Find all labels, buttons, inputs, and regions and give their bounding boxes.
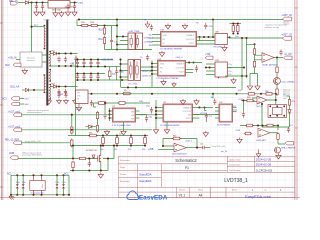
ground (216, 73, 221, 79)
gate driver U10a (128, 60, 134, 81)
capacitor C11 (89, 74, 92, 80)
resistor R06 (246, 99, 255, 102)
capacitor CX3 (bowtie) (56, 184, 59, 188)
capacitor C8a (145, 115, 148, 123)
junctions (232, 22, 239, 34)
resistor R28 (245, 124, 254, 127)
wire (55, 8, 57, 11)
svg-text:IN1: IN1 (149, 35, 152, 37)
note text secondary (27, 109, 49, 114)
resistor R44 divider (144, 136, 147, 146)
ground under U2 (121, 130, 126, 136)
junctions rail C (76, 72, 99, 74)
wire main +UST trunk (78, 19, 284, 21)
wires to grounds (250, 68, 258, 84)
U6 right pins (186, 63, 191, 73)
svg-text:+UST_PWR: +UST_PWR (128, 31, 140, 33)
resistor R7c (288, 98, 290, 106)
junctions bottom rail (10, 194, 70, 196)
svg-text:+T06: +T06 (205, 54, 211, 56)
gate driver U9b (136, 33, 143, 50)
note text right (283, 89, 290, 96)
resistor R42 divider (116, 136, 119, 146)
junctions rail A (76, 58, 99, 60)
junction (243, 66, 245, 68)
svg-text:+U06_G: +U06_G (175, 57, 183, 59)
capacitor CX4 (bowtie) (62, 184, 65, 188)
capacitor C6 (205, 113, 208, 120)
ground (64, 99, 69, 104)
ground under U2 left (104, 130, 109, 136)
ground (203, 131, 208, 137)
svg-text:VQC04: VQC04 (200, 113, 208, 115)
ground above U7 right (182, 24, 187, 30)
ground (237, 138, 242, 144)
wires C16b (116, 67, 118, 81)
svg-text:обмотки датчика: обмотки датчика (27, 112, 43, 114)
wire (212, 20, 214, 38)
junctions on main trunk (78, 18, 214, 20)
svg-text:SUP: SUP (5, 65, 10, 67)
IC U2 inner text (131, 112, 135, 121)
svg-text:Create Date:: Create Date: (229, 163, 241, 166)
wire source (100, 163, 102, 171)
resistor R29 (266, 124, 275, 127)
resistor R4b (78, 157, 87, 159)
svg-text:автобледы 3000п 600Гц: автобледы 3000п 600Гц (22, 155, 42, 157)
port flag +U_OP (284, 56, 293, 60)
resistor R18 (103, 27, 105, 36)
svg-text:LTC3800ES6#MPBF: LTC3800ES6#MPBF (160, 125, 180, 127)
svg-text:+15B: +15B (148, 149, 154, 151)
junctions (100, 145, 115, 160)
resistor R24 (276, 66, 278, 74)
svg-text:IN4: IN4 (149, 45, 152, 47)
svg-text:pin_1k: pin_1k (221, 151, 228, 153)
svg-text:по питанию ВЧ: по питанию ВЧ (31, 193, 45, 195)
U11 right pin (227, 36, 229, 38)
diode VD11 (25, 1, 28, 4)
ground above U6 (159, 51, 164, 57)
svg-text:SCL: SCL (233, 106, 237, 108)
U10a internal element (130, 62, 132, 79)
resistor R7 (118, 102, 127, 105)
U12 right pins (233, 108, 237, 112)
svg-text:JLCPCB-002: JLCPCB-002 (256, 168, 273, 172)
svg-text:200в: 200в (42, 184, 44, 188)
filter choke module L1 (30, 176, 45, 194)
ground (57, 99, 62, 104)
resistor R35 (88, 134, 98, 137)
port flag OPA (285, 141, 294, 145)
svg-text:Sheet:: Sheet: (232, 189, 238, 192)
relay K1 pin dots (269, 105, 285, 116)
port flag ref (13, 141, 22, 145)
junctions (116, 35, 124, 45)
ground (40, 10, 45, 16)
resistor R41 divider (102, 136, 105, 146)
wire (71, 115, 73, 126)
wire (212, 94, 214, 99)
svg-text:EasyEDA: EasyEDA (140, 172, 152, 176)
svg-text:SW: SW (131, 119, 134, 121)
port flag REL_IN (11, 2, 18, 5)
resistor R32 (71, 126, 73, 135)
wire (207, 147, 211, 149)
svg-text:R19: R19 (99, 39, 104, 41)
wire (225, 75, 247, 77)
wires U10 to U6 (141, 67, 153, 71)
capacitor C26 (242, 111, 245, 118)
resistor R33 (71, 139, 73, 148)
junctions (127, 86, 137, 88)
power flag above U9 (145, 21, 150, 27)
ground (255, 84, 260, 90)
capacitor CX2 (bowtie) (22, 184, 25, 188)
junctions (155, 106, 157, 119)
capacitor C3b (64, 89, 67, 95)
svg-text:+GDRV_B: +GDRV_B (142, 76, 152, 78)
wire (200, 107, 214, 109)
junction (103, 24, 105, 26)
wires (87, 159, 98, 161)
capacitor C1a (57, 57, 60, 63)
svg-text:DVT809 T20: DVT809 T20 (86, 150, 97, 152)
wire to +UST_03 (230, 37, 284, 39)
svg-text:VOUT: VOUT (186, 118, 192, 120)
junctions (198, 106, 205, 108)
wire (111, 26, 113, 50)
junctions (241, 37, 256, 77)
svg-text:VT2_1T936A: VT2_1T936A (282, 81, 295, 84)
ground (164, 128, 169, 134)
ground below U6 (161, 80, 166, 86)
ground under U5 (76, 106, 81, 112)
wires CX1 (16, 175, 18, 195)
ground (153, 128, 158, 134)
svg-text:EasyEDA: EasyEDA (140, 179, 152, 183)
chassis ground filter (9, 195, 15, 200)
U7 left pins (152, 35, 161, 46)
U3 right pins (193, 108, 200, 119)
port flag SUPPLY (13, 63, 21, 66)
junctions bank upper (102, 134, 146, 136)
capacitor C17 (150, 25, 153, 31)
junctions (260, 93, 277, 95)
svg-text:GND: GND (160, 64, 165, 66)
svg-text:OUT/SYN: OUT/SYN (183, 111, 192, 113)
ground (65, 10, 70, 16)
wire (16, 59, 20, 61)
ground (53, 11, 58, 17)
wire (204, 108, 206, 111)
wire secondary tap 2 (50, 86, 77, 88)
wire (105, 49, 153, 51)
resistor R19 (103, 36, 105, 45)
svg-text:3.3n: 3.3n (16, 182, 20, 184)
svg-text:4n7: 4n7 (65, 6, 68, 8)
junction (228, 36, 230, 38)
wires to opamp inputs (255, 55, 263, 60)
resistor R23 (253, 60, 255, 68)
wire osc out (187, 147, 201, 149)
ground (59, 11, 64, 17)
capacitor C22 (41, 3, 44, 10)
IC U13 charge pump (215, 62, 227, 77)
svg-text:+U_OP: +U_OP (284, 54, 292, 56)
svg-text:NC7SZ08M5X: NC7SZ08M5X (217, 125, 231, 127)
svg-text:out2: out2 (283, 97, 287, 100)
wire (94, 102, 151, 104)
junctions (58, 85, 67, 87)
wire (22, 142, 71, 144)
ground center-tap (46, 100, 51, 105)
wire rail C (76, 73, 106, 75)
ground above U3 (180, 99, 185, 105)
wire top trunk (29, 2, 78, 4)
U7 left pin labels (149, 35, 152, 48)
wires (86, 126, 97, 128)
capacitor C21 (35, 3, 38, 10)
wire rail (50, 65, 77, 67)
capacitor C7a (103, 112, 106, 120)
capacitor C10 (82, 74, 85, 80)
wire rail B (76, 66, 106, 68)
wires R4a (109, 67, 111, 81)
transistor VT3 (274, 147, 281, 153)
diode VD1 (25, 88, 28, 91)
wire (22, 89, 25, 91)
wire (192, 118, 194, 120)
svg-text:Version: Version (179, 190, 185, 192)
svg-text:IN3: IN3 (149, 42, 152, 44)
svg-text:+UB_MAIN: +UB_MAIN (101, 59, 113, 62)
wires (289, 106, 291, 127)
svg-text:+UB: +UB (70, 63, 75, 65)
note text mosfet (22, 152, 42, 157)
svg-text:SD2_AA: SD2_AA (10, 86, 20, 89)
ground (34, 10, 39, 16)
junctions rail B (76, 65, 99, 67)
junction (88, 157, 90, 159)
junctions (58, 52, 72, 54)
diode VD14 (92, 155, 95, 158)
svg-text:Sheet: Sheet (198, 189, 203, 192)
wire (18, 2, 26, 4)
resistor R21 (237, 24, 239, 33)
U10b internal element (136, 62, 138, 79)
IC U7 LTC3800 upper (161, 32, 197, 47)
gate driver U9a (128, 33, 135, 50)
ground (72, 10, 77, 16)
junctions (58, 65, 72, 67)
port flag SD1 (11, 97, 20, 100)
IC U6 inner text (160, 63, 185, 74)
junctions (205, 66, 211, 68)
ground on trunk A (172, 82, 176, 87)
IC U7 inner text (163, 34, 195, 45)
junctions (104, 58, 122, 78)
capacitor C28 (213, 99, 216, 105)
svg-text:VOUT: VOUT (179, 72, 185, 74)
wires (270, 126, 278, 133)
junctions on top trunk (30, 1, 75, 3)
capacitor C5a (150, 107, 153, 114)
svg-text:3.3n: 3.3n (22, 182, 26, 184)
capacitor C16 (110, 38, 113, 45)
wire (166, 122, 168, 128)
wires startup to transformer (42, 55, 46, 62)
svg-text:P1: P1 (185, 166, 189, 170)
ground (247, 84, 252, 90)
diode VD5 (53, 52, 56, 55)
wire rail left of U3 (155, 100, 157, 128)
startup power module PS1 (20, 52, 42, 67)
resistor R5b (265, 93, 274, 96)
resistor R31 (277, 133, 279, 141)
junctions on trunk (90, 93, 237, 95)
wires (191, 63, 203, 73)
svg-text:AC1: AC1 (2, 97, 7, 100)
svg-text:+UB2: +UB2 (76, 109, 82, 111)
svg-text:R18: R18 (99, 30, 104, 32)
wire primary feed (24, 3, 32, 53)
wire (104, 103, 106, 112)
wire (116, 20, 118, 50)
junctions (72, 169, 102, 171)
wires (276, 74, 278, 88)
resistor R1b (172, 137, 182, 140)
svg-text:Schematic2: Schematic2 (175, 158, 197, 163)
resistor R14 (96, 124, 98, 133)
note text near port (283, 21, 290, 25)
wire (243, 101, 245, 112)
junction row right of U7 (198, 36, 214, 38)
junction (104, 102, 106, 104)
junction (242, 99, 244, 101)
capacitor C2b2 (146, 55, 149, 61)
transformer T1 primary winding (left) (44, 26, 46, 49)
ground under U11 (222, 46, 227, 52)
wires CX3 (56, 175, 58, 195)
op-amp U4B (257, 96, 267, 104)
ground mosfet (98, 173, 103, 179)
transformer T1 core (46, 20, 48, 106)
wires opamp2 inputs (252, 98, 257, 102)
wire bank lower (70, 145, 145, 147)
wire rail left of U6 (151, 61, 153, 88)
capacitor C23 (66, 3, 69, 10)
wire vertical (241, 38, 243, 90)
svg-text:Page:: Page: (120, 167, 126, 169)
capacitor C8 (96, 60, 99, 66)
ground above U7 left (165, 24, 170, 30)
capacitor C24 (73, 3, 76, 10)
ground under startup box (22, 69, 27, 75)
svg-text:+15B: +15B (235, 130, 241, 132)
IC U6 LTC3800 (158, 61, 186, 77)
junctions (162, 145, 198, 149)
resistor R5a (247, 93, 256, 96)
wire opamp2 out (267, 94, 276, 105)
IC U3 inner text (183, 107, 192, 121)
resistor R2a (90, 24, 99, 26)
wire long out1 (22, 114, 157, 116)
capacitor C12 (96, 74, 99, 80)
junction column U2 (108, 110, 110, 119)
capacitor C6 (82, 60, 85, 66)
IC U11 driver (215, 34, 227, 45)
note text (283, 93, 290, 100)
wire to primary (32, 26, 45, 28)
wire opamp out (274, 57, 283, 59)
svg-text:2.3V SQUARE REG: 2.3V SQUARE REG (112, 124, 131, 127)
IC U5 startup controller (76, 90, 89, 104)
svg-text:U04 LM2904DT: U04 LM2904DT (172, 154, 187, 156)
resistor R13 (96, 111, 98, 120)
svg-text:LVDT38_1: LVDT38_1 (224, 178, 248, 184)
wire secondary tap 1 (50, 53, 77, 55)
pin labels right of U9 (144, 37, 154, 44)
wire (104, 26, 106, 50)
junctions above U10 (133, 59, 139, 61)
junction (30, 26, 32, 28)
wire filter top rail (11, 174, 69, 176)
junction (276, 56, 278, 58)
svg-text:R06: R06 (247, 97, 250, 99)
wire (123, 122, 125, 130)
wire drain (100, 146, 102, 153)
svg-text:V1.1: V1.1 (179, 194, 186, 198)
wire vertical x120.5 (120, 60, 122, 88)
LED VD13 (288, 110, 291, 113)
svg-text:1uF: 1uF (119, 133, 122, 135)
wire rail A (76, 59, 114, 61)
svg-text:+UB_IN: +UB_IN (8, 56, 17, 59)
wire filter bottom rail (11, 194, 69, 196)
relay K1 (268, 105, 287, 118)
startup module text (27, 58, 36, 62)
wire osc loop top (163, 138, 197, 140)
capacitor C9 (76, 74, 79, 80)
wire osc loop right (196, 139, 198, 148)
transformer pin dots (44, 25, 52, 100)
wire (247, 44, 255, 47)
IC U2 buck regulator (113, 108, 136, 122)
svg-text:IN2: IN2 (149, 38, 152, 40)
svg-text:OUT/SYN: OUT/SYN (186, 39, 195, 41)
down-arrow port symbol (256, 150, 261, 158)
wire VQC04 (193, 114, 220, 116)
capacitor CX1 (bowtie) (16, 184, 19, 188)
capacitor C14 (195, 65, 198, 72)
wires (278, 141, 285, 145)
wire to bank (103, 146, 114, 171)
svg-text:EasyEDA.com: EasyEDA.com (245, 194, 271, 199)
wire rail D (76, 79, 129, 81)
U9b internal element (136, 35, 138, 48)
capacitor C2b (74, 56, 77, 63)
diode VD3 (89, 125, 92, 128)
wire U13 to vertical (227, 67, 244, 69)
port flag +UST_03 (283, 36, 292, 40)
resistor R30 (244, 132, 253, 135)
capacitor C15 (217, 62, 220, 69)
wire (29, 89, 45, 91)
U7 right pins (197, 37, 216, 44)
wires (205, 111, 207, 123)
svg-text:OUT/SYN: OUT/SYN (176, 68, 185, 70)
